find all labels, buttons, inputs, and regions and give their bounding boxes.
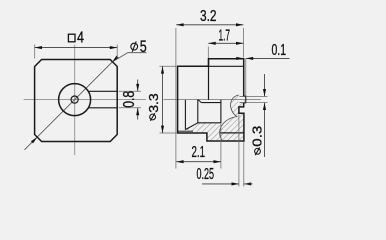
flange chamfer edge line bottom xyxy=(220,132,244,134)
dimension diameter-0.3: rotated text xyxy=(250,126,264,156)
dimension square-4: extension lines xyxy=(34,45,36,59)
dimension diameter-0.3: dimension line with outside arrows xyxy=(264,74,266,96)
svg-text:1.7: 1.7 xyxy=(219,27,231,44)
flange front face edge xyxy=(208,59,210,100)
dimension 0.1: arrows and line xyxy=(246,57,290,59)
tube inner wall line xyxy=(178,130,193,132)
dimension 0.8: dimension line with outside arrows xyxy=(137,80,139,92)
dimension diameter-3.3: extension lines xyxy=(160,65,177,67)
flange chamfer edge line top xyxy=(209,65,244,67)
svg-text:3.3: 3.3 xyxy=(147,93,161,113)
dimension 3.2: extension lines xyxy=(175,28,177,135)
main outline of body (thick) xyxy=(178,59,244,141)
svg-text:5: 5 xyxy=(140,38,147,56)
svg-text:0.25: 0.25 xyxy=(197,166,215,183)
bore entry chamfer xyxy=(198,100,202,103)
break-out section wavy line xyxy=(220,95,239,141)
svg-text:4: 4 xyxy=(77,29,84,46)
dimension 0.25: extension lines xyxy=(238,115,240,187)
hatch flange lower-left block xyxy=(207,123,223,141)
arrowhead at bottom-left chamfer xyxy=(31,137,37,143)
dimension 1.7: dimension line xyxy=(208,42,243,44)
dimension 1.7: extension line xyxy=(207,47,209,59)
slot upper edge xyxy=(89,90,117,92)
svg-text:2.1: 2.1 xyxy=(192,144,206,161)
dimension 2.1: dimension line xyxy=(176,161,221,163)
square flange outline with chamfered corners xyxy=(35,60,118,142)
dimension 0.1: pin tip extension line xyxy=(245,58,247,95)
diagonal leader line for diameter 5 xyxy=(25,53,147,150)
dimension 3.2: dimension line xyxy=(176,24,243,26)
dimension 0.25: dimension line with outside arrows xyxy=(202,183,239,185)
center pin circle xyxy=(71,96,78,103)
bore cavity walls xyxy=(198,100,221,123)
dimension diameter-0.3: extension lines xyxy=(246,95,268,97)
centerline horizontal (left view) xyxy=(24,99,146,101)
arrowhead at top-right chamfer xyxy=(112,56,118,62)
svg-text:0.1: 0.1 xyxy=(272,42,287,59)
dimension square-4: text xyxy=(68,34,75,42)
dimension diameter-3.3: dimension line xyxy=(162,66,164,133)
centerline vertical (left view) xyxy=(74,45,76,155)
slot depth face xyxy=(184,100,186,130)
slot lower edge xyxy=(89,107,117,109)
dimension 2.1: extension line right xyxy=(220,124,222,169)
svg-text:0.3: 0.3 xyxy=(250,126,264,147)
pin hole edges xyxy=(240,95,244,97)
socket tube circle xyxy=(59,84,91,116)
centerline horizontal (right view) xyxy=(164,99,262,101)
dimension diameter-5: text xyxy=(131,38,147,56)
cone transition xyxy=(185,123,197,130)
bore small diameter edge xyxy=(201,102,221,104)
dimension 0.8: extension lines xyxy=(119,90,142,92)
hatch flange right of break line xyxy=(220,95,246,141)
dimension square-4: dimension line xyxy=(35,47,118,49)
hatch barrel lower wall xyxy=(186,123,207,133)
svg-text:3.2: 3.2 xyxy=(200,8,217,25)
svg-text:0.8: 0.8 xyxy=(121,91,138,108)
center pin protruding tip xyxy=(244,96,246,103)
dimension diameter-3.3: rotated text xyxy=(147,93,161,121)
